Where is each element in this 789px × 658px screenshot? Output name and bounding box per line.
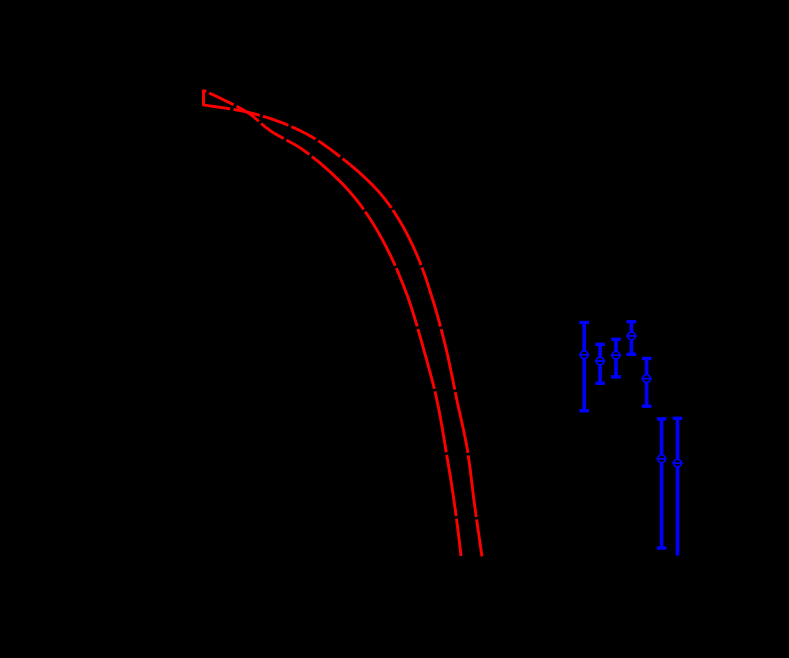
data point 4 vertical error bar with caps: [627, 322, 637, 355]
data point 2 open circle marker: [596, 357, 604, 365]
data point 5 vertical error bar with caps: [642, 359, 652, 407]
data point 4 open circle marker: [628, 332, 636, 340]
data point 6 vertical error bar with caps: [657, 419, 667, 548]
data point 2 vertical error bar with caps: [595, 344, 605, 383]
red dashed curve A upper segment (starts at cap top, crosses to lower-left): [204, 91, 323, 166]
data point 4 horizontal x-error bar: [626, 335, 636, 337]
data point 3 horizontal x-error bar: [611, 354, 621, 356]
data point 5 horizontal x-error bar: [641, 378, 651, 380]
red band left end cap (vertical tick): [202, 90, 205, 107]
data point 1 vertical error bar with caps: [579, 323, 589, 411]
data point 1 horizontal x-error bar: [579, 354, 589, 356]
red dashed curve A lower segment (long dashes, ends bottom-left): [322, 165, 461, 556]
data point 1 open circle marker: [580, 351, 588, 359]
data point 2 horizontal x-error bar: [595, 360, 605, 362]
data point 3 vertical error bar with caps: [611, 339, 621, 377]
data point 7 vertical error bar with caps: [673, 418, 683, 555]
data point 6 open circle marker: [658, 455, 666, 463]
red dashed curve B lower segment (long dashes, ends bottom-right): [351, 165, 483, 557]
red dashed curve B upper segment (starts at cap bottom, crosses to upper-right): [204, 105, 351, 165]
data point 7 horizontal x-error bar: [672, 462, 682, 464]
data point 6 horizontal x-error bar: [656, 458, 666, 460]
data point 7 open circle marker: [674, 459, 682, 467]
data point 3 open circle marker: [612, 351, 620, 359]
data point 5 open circle marker: [643, 375, 651, 383]
